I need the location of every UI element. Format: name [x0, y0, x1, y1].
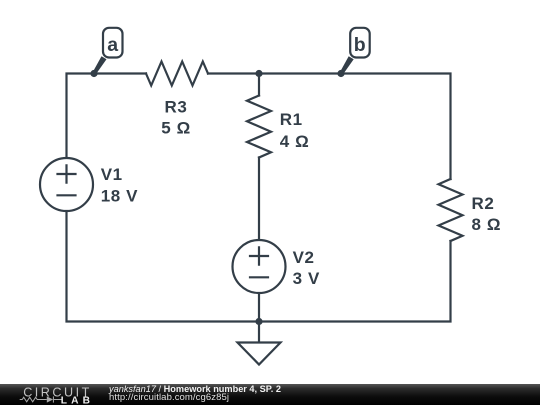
svg-text:LAB: LAB [61, 396, 95, 405]
svg-text:4 Ω: 4 Ω [280, 132, 310, 151]
svg-text:5 Ω: 5 Ω [161, 119, 191, 138]
svg-text:8 Ω: 8 Ω [472, 215, 502, 234]
svg-text:V2: V2 [293, 248, 315, 267]
svg-text:R2: R2 [472, 194, 495, 213]
svg-text:b: b [354, 34, 366, 56]
svg-text:R3: R3 [165, 97, 188, 116]
svg-text:R1: R1 [280, 110, 303, 129]
svg-text:V1: V1 [101, 165, 123, 184]
svg-text:18 V: 18 V [101, 186, 138, 205]
svg-text:a: a [107, 34, 118, 56]
svg-text:3 V: 3 V [293, 269, 320, 288]
